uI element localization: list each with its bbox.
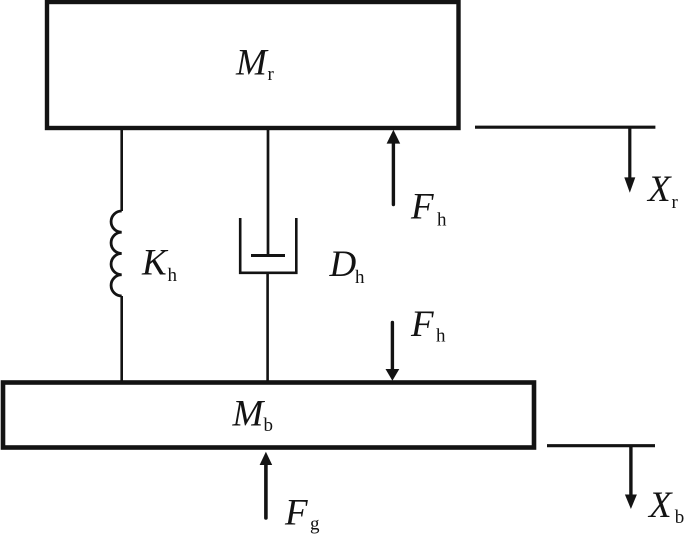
force arrow Fh (down, onto Mb) (386, 323, 400, 381)
label Xr (646, 169, 679, 213)
mass block Mr (top rectangle) (47, 2, 459, 128)
svg-text:r: r (268, 64, 275, 85)
svg-text:M: M (235, 43, 269, 84)
damper Dh piston rod (to Mr) (267, 128, 270, 257)
svg-text:X: X (646, 169, 672, 210)
label Fg (284, 493, 320, 535)
displacement arrow Xb (down) (625, 445, 637, 509)
svg-text:F: F (410, 187, 434, 228)
mass block Mb (bottom rectangle) (3, 383, 534, 448)
label Mr (235, 43, 275, 86)
label Kh (141, 243, 178, 287)
displacement arrow Xr (down) (624, 127, 635, 193)
wire spring-to-Mb (120, 296, 123, 382)
force arrow Fh (up, under Mr) (387, 130, 401, 205)
reference line Xr (475, 126, 655, 129)
svg-text:b: b (675, 507, 685, 528)
svg-text:F: F (284, 493, 308, 534)
svg-text:D: D (329, 244, 357, 285)
svg-text:K: K (141, 243, 169, 284)
svg-text:h: h (436, 326, 446, 347)
svg-text:X: X (647, 485, 673, 526)
damper Dh piston plate (251, 254, 285, 257)
force arrow Fg (up, under Mb) (260, 452, 273, 518)
svg-text:h: h (355, 267, 365, 288)
label Mb (232, 393, 274, 435)
svg-text:h: h (168, 265, 178, 286)
reference line Xb (547, 444, 655, 447)
spring Kh coil (111, 211, 122, 296)
wire spring-to-Mr (120, 128, 123, 211)
wire damper-to-Mb (266, 273, 269, 382)
label Xb (647, 485, 684, 528)
svg-text:r: r (672, 192, 679, 213)
svg-text:b: b (264, 415, 274, 436)
label Fh (upper) (410, 187, 447, 231)
svg-text:h: h (437, 210, 447, 231)
label Fh (lower) (410, 304, 446, 347)
svg-text:M: M (232, 393, 266, 434)
label Dh (329, 244, 366, 288)
svg-text:g: g (310, 514, 320, 535)
damper Dh cylinder cup (240, 218, 296, 273)
svg-text:F: F (410, 304, 434, 345)
